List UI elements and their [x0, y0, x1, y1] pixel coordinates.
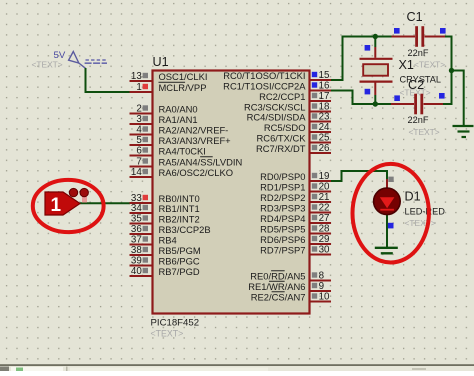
wire pin16 to bottom rail	[331, 91, 391, 105]
svg-text:<TEXT>: <TEXT>	[409, 127, 440, 137]
svg-text:RC0/T1OSO/T1CKI: RC0/T1OSO/T1CKI	[223, 70, 305, 81]
wire top rail C1 right to right vertical	[444, 37, 452, 71]
svg-text:38: 38	[131, 245, 142, 256]
svg-text:30: 30	[319, 245, 330, 256]
pin 7 RA5/AN4/SS/LVDIN (left)	[130, 156, 243, 167]
svg-text:2: 2	[136, 104, 141, 115]
svg-text:3: 3	[136, 114, 142, 125]
svg-text:14: 14	[131, 167, 142, 178]
svg-text:19: 19	[319, 171, 330, 182]
wire pin15 to top rail	[331, 37, 400, 81]
svg-text:<TEXT>: <TEXT>	[151, 329, 184, 339]
svg-text:9: 9	[319, 281, 324, 292]
svg-text:RC1/T1OSI/CCP2A: RC1/T1OSI/CCP2A	[223, 80, 306, 91]
junction bottom rail / crystal	[373, 101, 378, 106]
pin 10 RE2/CS/AN7 (right)	[251, 291, 331, 302]
pin 37 RB4 (left)	[130, 234, 177, 245]
C1 right terminal marker	[440, 28, 446, 34]
svg-text:RA6/OSC2/CLKO: RA6/OSC2/CLKO	[159, 167, 234, 178]
svg-text:22: 22	[319, 203, 330, 214]
svg-text:13: 13	[131, 71, 142, 82]
svg-text:RB1/INT1: RB1/INT1	[159, 203, 200, 214]
pin 20 RD1/PSP1 (right)	[260, 181, 331, 192]
pin 35 RB2/INT2 (left)	[130, 213, 200, 224]
junction top rail / crystal	[373, 34, 378, 39]
pin 1 MCLR/VPP (left)	[130, 82, 207, 93]
pin 8 RE0/RD/AN5 (right)	[250, 270, 331, 281]
svg-text:RB3/CCP2B: RB3/CCP2B	[159, 224, 211, 235]
svg-text:RB5/PGM: RB5/PGM	[159, 245, 201, 256]
svg-text:29: 29	[319, 234, 330, 245]
wire branch to ground	[452, 71, 464, 127]
ground (crystal network)	[453, 126, 474, 137]
pin 21 RD2/PSP2 (right)	[260, 192, 331, 203]
pin 26 RC7/RX/DT (right)	[256, 143, 331, 154]
crystal X1	[360, 37, 393, 105]
pin 39 RB6/PGC (left)	[130, 255, 200, 266]
power symbol 5V	[69, 52, 86, 69]
pin 23 RC4/SDI/SDA (right)	[247, 111, 331, 122]
svg-text:U1: U1	[153, 55, 169, 69]
svg-text:17: 17	[319, 91, 330, 102]
capacitor C2	[391, 94, 443, 115]
pin 13 OSC1/CLKI (left)	[130, 71, 208, 82]
svg-text:RC6/TX/CK: RC6/TX/CK	[257, 132, 307, 143]
pin 22 RD3/PSP3 (right)	[260, 202, 331, 213]
ground (LED)	[375, 248, 398, 254]
pin 27 RD4/PSP4 (right)	[260, 213, 331, 224]
op-amp U1 body PIC18F452	[153, 71, 310, 314]
annotation circle around LED	[353, 164, 429, 263]
logicstate toggle dot 2	[80, 188, 88, 202]
logicstate marker 1	[45, 192, 80, 216]
pin 33 RB0/INT0 (left)	[130, 193, 200, 204]
svg-text:C1: C1	[407, 10, 423, 24]
C2 left terminal marker	[394, 95, 400, 101]
pin 4 RA2/AN2/VREF- (left)	[130, 124, 229, 135]
pin 38 RB5/PGM (left)	[130, 245, 201, 256]
svg-text:D1: D1	[405, 190, 421, 204]
svg-text:24: 24	[319, 122, 330, 133]
pin 14 RA6/OSC2/CLKO (left)	[130, 167, 234, 178]
pin 25 RC6/TX/CK (right)	[257, 132, 331, 143]
pin 6 RA4/T0CKI (left)	[130, 145, 206, 156]
svg-text:RD1/PSP1: RD1/PSP1	[260, 181, 305, 192]
pin 36 RB3/CCP2B (left)	[130, 224, 211, 235]
svg-text:1: 1	[136, 82, 141, 93]
svg-text:28: 28	[319, 224, 330, 235]
pin 24 RC5/SDO (right)	[264, 122, 331, 133]
pin 17 RC2/CCP1 (right)	[259, 91, 331, 102]
svg-text:RB2/INT2: RB2/INT2	[159, 213, 200, 224]
X1 bottom terminal marker	[365, 89, 371, 95]
pin 16 RC1/T1OSI/CCP2A (right)	[223, 80, 331, 91]
svg-text:<TEXT>: <TEXT>	[414, 60, 445, 70]
LED D1	[374, 179, 401, 247]
svg-text:35: 35	[131, 214, 142, 225]
svg-text:RC5/SDO: RC5/SDO	[264, 122, 306, 133]
pin 40 RB7/PGD (left)	[130, 266, 200, 277]
wire right vertical to C2 right	[443, 71, 452, 105]
D1 anode terminal marker	[388, 177, 393, 182]
svg-text:RD5/PSP5: RD5/PSP5	[260, 223, 305, 234]
svg-text:<TEXT>: <TEXT>	[405, 218, 436, 228]
pin 28 RD5/PSP5 (right)	[260, 223, 331, 234]
pin 34 RB1/INT1 (left)	[130, 203, 200, 214]
svg-text:OSC1/CLKI: OSC1/CLKI	[159, 71, 208, 82]
D1 cathode terminal marker	[388, 223, 394, 229]
svg-text:RA4/T0CKI: RA4/T0CKI	[159, 145, 206, 156]
svg-text:LED-RED: LED-RED	[405, 207, 446, 217]
svg-text:RA0/AN0: RA0/AN0	[159, 103, 198, 114]
wire power to MCLR pin 1	[86, 68, 131, 92]
pin 5 RA3/AN3/VREF+ (left)	[130, 135, 232, 146]
X1 top terminal marker	[365, 45, 371, 51]
svg-text:RA1/AN1: RA1/AN1	[159, 114, 198, 125]
svg-text:RD4/PSP4: RD4/PSP4	[260, 213, 305, 224]
svg-text:RE2/CS/AN7: RE2/CS/AN7	[251, 291, 306, 302]
svg-text:20: 20	[319, 182, 330, 193]
svg-text:RD2/PSP2: RD2/PSP2	[260, 192, 305, 203]
svg-text:RB4: RB4	[159, 234, 177, 245]
svg-text:RD3/PSP3: RD3/PSP3	[260, 202, 305, 213]
pin 29 RD6/PSP6 (right)	[260, 234, 331, 245]
svg-text:MCLR/VPP: MCLR/VPP	[159, 82, 207, 93]
svg-text:21: 21	[319, 192, 330, 203]
svg-text:RA3/AN3/VREF+: RA3/AN3/VREF+	[159, 135, 232, 146]
svg-text:36: 36	[131, 224, 142, 235]
pin 30 RD7/PSP7 (right)	[260, 244, 331, 255]
svg-text:RA2/AN2/VREF-: RA2/AN2/VREF-	[159, 124, 229, 135]
wire logicstate to RB0 pin 33	[80, 202, 130, 204]
annotation circle around logicstate	[33, 180, 104, 232]
svg-text:25: 25	[319, 133, 330, 144]
svg-text:RC7/RX/DT: RC7/RX/DT	[256, 143, 306, 154]
svg-text:1: 1	[51, 195, 62, 216]
pin 3 RA1/AN1 (left)	[130, 114, 198, 125]
status bar	[0, 364, 474, 371]
svg-text:5: 5	[136, 135, 142, 146]
svg-text:40: 40	[131, 266, 142, 277]
svg-text:16: 16	[319, 81, 330, 92]
svg-text:8: 8	[319, 271, 325, 282]
svg-text:6: 6	[136, 146, 142, 157]
svg-text:37: 37	[131, 235, 142, 246]
svg-text:C2: C2	[408, 78, 424, 92]
svg-text:22nF: 22nF	[408, 115, 429, 125]
svg-text:RB6/PGC: RB6/PGC	[159, 255, 200, 266]
svg-text:27: 27	[319, 213, 330, 224]
svg-text:7: 7	[136, 157, 141, 168]
svg-text:RB7/PGD: RB7/PGD	[159, 266, 200, 277]
svg-text:10: 10	[319, 292, 330, 303]
pin 19 RD0/PSP0 (right)	[260, 171, 331, 182]
svg-text:15: 15	[319, 70, 330, 81]
svg-text:<TEXT>: <TEXT>	[32, 60, 63, 70]
capacitor C1	[392, 26, 446, 47]
C2 right terminal marker	[439, 93, 445, 99]
wire pin19 to LED D1	[331, 171, 387, 181]
svg-text:RE1/WR/AN6: RE1/WR/AN6	[248, 281, 305, 292]
power net dashes	[85, 60, 108, 63]
junction right vertical / ground branch	[449, 68, 454, 73]
svg-text:RC2/CCP1: RC2/CCP1	[259, 91, 305, 102]
svg-text:RC4/SDI/SDA: RC4/SDI/SDA	[247, 111, 307, 122]
pin 18 RC3/SCK/SCL (right)	[244, 101, 331, 112]
svg-text:RD7/PSP7: RD7/PSP7	[260, 244, 305, 255]
logicstate toggle dot 1	[69, 188, 77, 196]
svg-text:PIC18F452: PIC18F452	[151, 318, 200, 329]
svg-text:34: 34	[131, 203, 142, 214]
svg-text:39: 39	[131, 256, 142, 267]
pin 9 RE1/WR/AN6 (right)	[248, 281, 331, 292]
svg-text:X1: X1	[399, 58, 414, 72]
pin 2 RA0/AN0 (left)	[130, 103, 198, 114]
pin 15 RC0/T1OSO/T1CKI (right)	[223, 70, 331, 81]
C1 left terminal marker	[394, 28, 400, 34]
svg-text:RA5/AN4/SS/LVDIN: RA5/AN4/SS/LVDIN	[159, 156, 243, 167]
svg-text:4: 4	[136, 125, 142, 136]
svg-text:23: 23	[319, 112, 330, 123]
svg-text:22nF: 22nF	[408, 48, 429, 58]
svg-text:26: 26	[319, 143, 330, 154]
svg-text:RD0/PSP0: RD0/PSP0	[260, 171, 305, 182]
svg-text:RD6/PSP6: RD6/PSP6	[260, 234, 305, 245]
svg-text:RE0/RD/AN5: RE0/RD/AN5	[250, 270, 305, 281]
